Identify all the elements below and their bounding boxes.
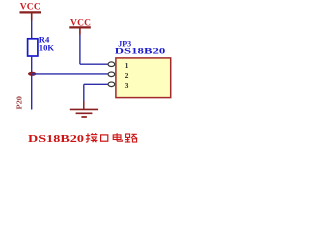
svg-text:VCC: VCC <box>20 3 41 13</box>
wire R4 bottom to junction <box>31 56 33 74</box>
wire VCC to R4 top <box>31 21 33 39</box>
junction dot <box>28 72 36 76</box>
svg-text:10K: 10K <box>39 42 55 52</box>
title glyph 路 <box>125 134 137 142</box>
resistor R4 10K <box>28 35 55 56</box>
title glyph 电 <box>113 133 122 141</box>
pin 1 circle <box>108 62 115 67</box>
power VCC (right, to pin 1) <box>69 19 91 35</box>
wire junction to pin 2 <box>32 73 108 75</box>
title glyph 接 <box>86 133 98 142</box>
wire junction down to net stub <box>31 74 33 110</box>
title glyph 口 <box>101 135 108 141</box>
svg-text:1: 1 <box>125 61 129 70</box>
svg-text:DS18B20: DS18B20 <box>115 45 166 55</box>
svg-text:3: 3 <box>125 81 129 90</box>
wire pin 3 to ground corner <box>84 83 108 85</box>
power VCC (left, above R4) <box>20 3 42 21</box>
wire VCC2 down <box>79 35 81 65</box>
svg-text:P20: P20 <box>16 95 24 109</box>
svg-text:DS18B20: DS18B20 <box>28 134 84 145</box>
wire down to ground <box>83 84 85 101</box>
wire corner to pin 1 <box>80 63 108 65</box>
ground <box>70 101 98 117</box>
pin 2 circle <box>108 72 115 77</box>
connector JP3 body <box>116 58 171 98</box>
svg-text:2: 2 <box>125 71 129 80</box>
pin 3 circle <box>108 82 115 87</box>
